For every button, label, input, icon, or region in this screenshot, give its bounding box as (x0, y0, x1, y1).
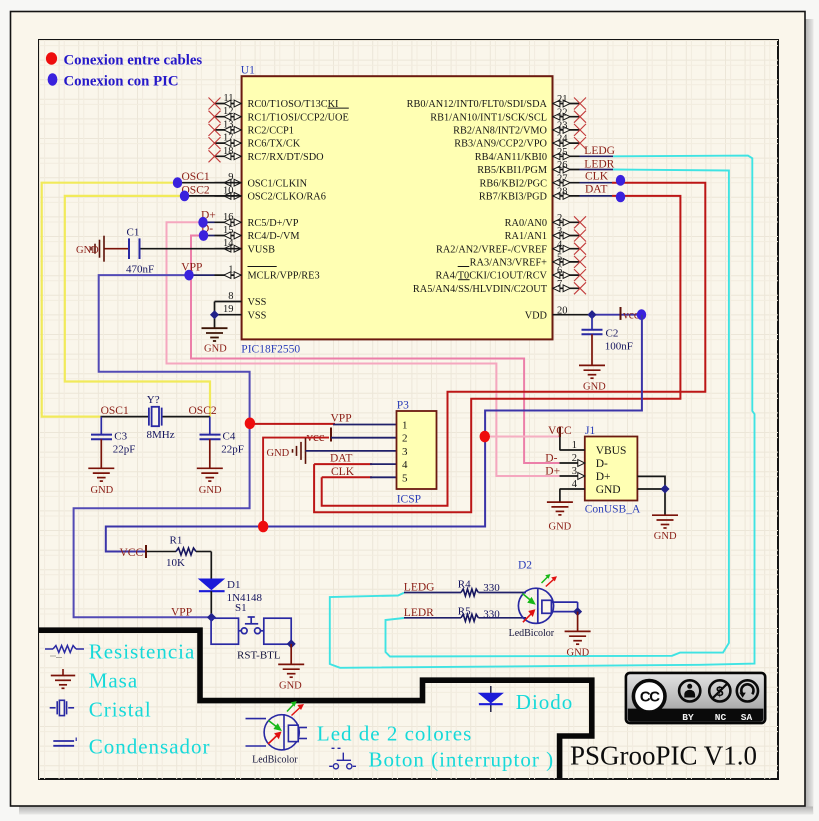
svg-text:RC5/D+/VP: RC5/D+/VP (248, 218, 299, 229)
svg-text:21: 21 (557, 94, 568, 105)
svg-text:OSC1/CLKIN: OSC1/CLKIN (248, 178, 308, 189)
svg-text:C1: C1 (127, 227, 140, 239)
ground at D2 (565, 631, 591, 644)
U1 pin 12 RC1/T1OSI/CCP2/UOE (209, 106, 349, 123)
svg-text:VSS: VSS (248, 297, 267, 308)
wire C1 to VUSB (141, 248, 242, 250)
svg-text:RA5/AN4/SS/HLVDIN/C2OUT: RA5/AN4/SS/HLVDIN/C2OUT (413, 284, 548, 295)
legend capacitor icon (Condensador) (53, 738, 76, 746)
svg-text:ConUSB_A: ConUSB_A (585, 504, 641, 516)
LED D2 green arrow (523, 594, 533, 602)
svg-text:ICSP: ICSP (397, 494, 421, 506)
svg-text:OSC2: OSC2 (189, 405, 217, 417)
svg-text:RA3/AN3/VREF+: RA3/AN3/VREF+ (470, 258, 548, 269)
svg-text:LEDR: LEDR (584, 158, 614, 170)
junction blue dot D+ (198, 217, 207, 228)
wire cyan LEDG net (330, 156, 755, 668)
svg-text:NC: NC (715, 712, 727, 723)
svg-text:10K: 10K (166, 557, 185, 569)
svg-text:VCC: VCC (120, 547, 144, 559)
svg-text:VCC: VCC (548, 425, 572, 437)
wire navy VCC net (106, 315, 642, 552)
svg-text:C2: C2 (606, 328, 619, 340)
wire crystal to OSC2 (162, 416, 210, 418)
svg-text:8: 8 (228, 291, 233, 302)
svg-text:P3: P3 (397, 400, 409, 412)
U1 pin 25 RB4/AN11/KBI0 (475, 147, 580, 163)
U1 pin 15 RC4/D-/VM (215, 225, 300, 242)
svg-text:GND: GND (279, 680, 302, 691)
svg-text:D1: D1 (227, 579, 240, 591)
svg-text:BY: BY (682, 712, 694, 723)
svg-text:330: 330 (483, 609, 500, 621)
svg-text:VDD: VDD (525, 310, 548, 321)
svg-text:28: 28 (557, 187, 568, 198)
legend button icon (329, 748, 356, 769)
svg-text:GND: GND (583, 382, 606, 393)
LED D2 light arrow green (542, 577, 548, 583)
ground at S1 (278, 664, 304, 677)
svg-text:SA: SA (741, 712, 753, 723)
U1 pin 6 RA4/T0CKI/C1OUT/RCV (435, 266, 586, 282)
svg-text:VPP: VPP (171, 606, 192, 618)
wire pink VBUS (487, 436, 560, 438)
svg-text:4: 4 (402, 459, 408, 471)
svg-text:Masa: Masa (89, 669, 139, 693)
wire gnd to P3 pin3 (306, 450, 397, 452)
U1 pin 21 RB0/AN12/INT0/FLT0/SDI/SDA (407, 94, 586, 110)
junction diamond VDD/C2 (587, 310, 596, 319)
J1 pin 3 D+ (560, 475, 585, 477)
U1 pin 11 RC0/T1OSO/T13CKI (209, 93, 340, 110)
svg-text:RC6/TX/CK: RC6/TX/CK (248, 139, 301, 150)
wire maroon vcc tap to VCC bus (263, 438, 329, 527)
svg-text:R1: R1 (170, 535, 183, 547)
svg-text:MCLR/VPP/RE3: MCLR/VPP/RE3 (248, 271, 320, 282)
U1 pin 13 RC2/CCP1 (209, 119, 294, 136)
U1 pin 23 RB2/AN8/INT2/VMO (453, 121, 586, 137)
svg-text:RC1/T1OSI/CCP2/UOE: RC1/T1OSI/CCP2/UOE (248, 112, 349, 123)
svg-text:14: 14 (223, 238, 234, 249)
legend LedBicolor icon (246, 714, 308, 751)
resistor R1 (147, 551, 176, 553)
svg-text:RC7/RX/DT/SDO: RC7/RX/DT/SDO (248, 152, 325, 163)
U1 pin 27 RB6/KBI2/PGC (479, 173, 579, 189)
svg-text:1: 1 (572, 440, 577, 451)
svg-text:RB3/AN9/CCP2/VPO: RB3/AN9/CCP2/VPO (454, 139, 547, 150)
svg-text:RA1/AN1: RA1/AN1 (505, 231, 547, 242)
U1 pin 3 RA1/AN1 (505, 226, 586, 242)
junction blue dot DAT (616, 192, 625, 203)
junction red dot VPP tap (245, 418, 255, 430)
junction blue dot VCC (637, 309, 646, 320)
connector P3 ICSP (397, 411, 437, 489)
svg-text:15: 15 (223, 225, 234, 236)
svg-text:D-: D- (596, 458, 608, 470)
svg-text:GND: GND (567, 647, 590, 658)
svg-text:RB0/AN12/INT0/FLT0/SDI/SDA: RB0/AN12/INT0/FLT0/SDI/SDA (407, 99, 548, 110)
svg-text:D2: D2 (518, 560, 532, 572)
diode D1 (198, 579, 226, 591)
ground at J1 shield (652, 515, 678, 528)
legend ground icon (Masa) (62, 669, 64, 675)
U1 pin 9 OSC1/CLKIN (215, 172, 308, 189)
junction blue dot OSC2 (180, 191, 189, 202)
U1 pin 20 VDD (525, 305, 593, 321)
svg-text:11: 11 (223, 93, 233, 104)
svg-text:2: 2 (402, 433, 408, 445)
capacitor C1 (129, 238, 140, 259)
wire DAT stub (580, 195, 613, 197)
svg-text:LedBicolor: LedBicolor (509, 628, 555, 639)
svg-text:LEDG: LEDG (584, 145, 615, 157)
wire violet VPP net from MCLR (74, 275, 250, 617)
svg-text:2: 2 (572, 453, 577, 464)
svg-text:Conexion entre cables: Conexion entre cables (64, 53, 203, 69)
svg-text:19: 19 (223, 304, 234, 315)
svg-text:27: 27 (557, 173, 568, 184)
ground at C2 (579, 365, 605, 378)
junction red dot vcc/VCC bus (258, 521, 268, 533)
svg-text:GND: GND (654, 531, 677, 542)
svg-text:Cristal: Cristal (89, 698, 152, 722)
U1 pin 22 RB1/AN10/INT1/SCK/SCL (430, 107, 586, 123)
resistor R5 (404, 617, 461, 619)
U1 pin 5 RA3/AN3/VREF+ (470, 253, 586, 269)
svg-text:12: 12 (223, 106, 234, 117)
power port VCC bar (620, 307, 622, 320)
ground at C4 (197, 468, 223, 481)
wire C4 to ground (209, 439, 211, 468)
svg-text:RB2/AN8/INT2/VMO: RB2/AN8/INT2/VMO (453, 126, 547, 137)
wire J1 shield to ground (637, 476, 665, 514)
wire C3 to ground (100, 439, 102, 468)
U1 pin 7 RA5/AN4/SS/HLVDIN/C2OUT (413, 279, 586, 295)
svg-text:RC0/T1OSO/T13CKI: RC0/T1OSO/T13CKI (248, 99, 340, 110)
svg-text:22: 22 (557, 107, 568, 118)
svg-text:OSC2/CLKO/RA6: OSC2/CLKO/RA6 (248, 192, 326, 203)
U1 pin 16 RC5/D+/VP (215, 212, 299, 229)
J1 pin 4 GND (560, 488, 585, 490)
svg-text:CLK: CLK (331, 466, 355, 478)
U1 pin 10 OSC2/CLKO/RA6 (215, 185, 326, 202)
svg-text:GND: GND (267, 448, 290, 459)
svg-text:Conexion con PIC: Conexion con PIC (64, 74, 179, 90)
U1 pin 18 RC7/RX/DT/SDO (209, 146, 325, 163)
wire VPP dot to pin (186, 274, 215, 276)
U1 pin 28 RB7/KBI3/PGD (479, 187, 580, 203)
svg-text:26: 26 (557, 160, 568, 171)
svg-text:4: 4 (572, 479, 578, 490)
svg-text:GND: GND (596, 484, 621, 496)
J1 pin 1 VBUS (560, 449, 585, 451)
svg-text:5: 5 (557, 253, 562, 264)
wire CLK stub (580, 182, 613, 184)
wire LEDR stub (580, 169, 614, 171)
capacitor C3 (100, 417, 102, 435)
wire pink D- net (191, 236, 560, 464)
svg-text:16: 16 (223, 212, 234, 223)
svg-text:5: 5 (402, 472, 408, 484)
svg-text:23: 23 (557, 121, 568, 132)
svg-text:D+: D+ (596, 471, 611, 483)
svg-text:470nF: 470nF (126, 264, 154, 276)
svg-text:Diodo: Diodo (516, 690, 574, 714)
svg-text:PSGrooPIC V1.0: PSGrooPIC V1.0 (570, 741, 757, 771)
svg-text:25: 25 (557, 147, 568, 158)
svg-text:RA0/AN0: RA0/AN0 (505, 218, 547, 229)
svg-text:100nF: 100nF (605, 341, 633, 353)
junction blue dot OSC1 (173, 177, 182, 188)
svg-text:CC: CC (640, 689, 660, 706)
crystal Y? (149, 407, 162, 426)
wire S1 to ground (290, 644, 292, 664)
svg-text:D-: D- (545, 452, 557, 464)
svg-text:Condensador: Condensador (89, 735, 211, 759)
legend crystal icon (Cristal) (50, 700, 74, 715)
svg-text:20: 20 (557, 305, 568, 316)
wire D2 to ground (577, 612, 579, 631)
svg-text:Resistencia: Resistencia (89, 640, 196, 664)
wire cyan LEDR net (386, 170, 729, 657)
svg-text:RB6/KBI2/PGC: RB6/KBI2/PGC (479, 178, 547, 189)
wire C1 to GND power bars (104, 248, 129, 250)
svg-text:7: 7 (557, 279, 562, 290)
svg-text:RST-BTL: RST-BTL (237, 649, 281, 661)
svg-text:3: 3 (557, 226, 562, 237)
svg-text:S1: S1 (235, 602, 247, 614)
svg-text:1: 1 (402, 420, 408, 432)
svg-text:GND: GND (91, 485, 114, 496)
wire C2 stub (591, 315, 593, 329)
svg-text:CLK: CLK (585, 170, 609, 182)
ground at J1 pin4 (547, 502, 573, 515)
svg-text:D+: D+ (545, 466, 560, 478)
wire OSC1 to crystal (101, 416, 150, 418)
svg-text:RB5/KBI1/PGM: RB5/KBI1/PGM (477, 165, 547, 176)
svg-text:13: 13 (223, 119, 234, 130)
CC license badge (626, 673, 765, 723)
U1 pin 4 RA2/AN2/VREF-/CVREF (436, 239, 586, 255)
resistor R4 (404, 592, 461, 594)
U1 pin 1 MCLR/VPP/RE3 (215, 265, 320, 282)
wire R1 to D1 (210, 552, 212, 579)
U1 pin 26 RB5/KBI1/PGM (477, 160, 579, 176)
svg-text:RB4/AN11/KBI0: RB4/AN11/KBI0 (475, 152, 547, 163)
legend resistor icon (45, 648, 53, 650)
svg-text:1: 1 (228, 265, 233, 276)
legend blue dot: conexion con PIC (48, 73, 58, 85)
U1 pin 24 RB3/AN9/CCP2/VPO (454, 134, 586, 150)
svg-text:9: 9 (228, 172, 233, 183)
svg-text:Y?: Y? (147, 394, 160, 406)
svg-text:OSC1: OSC1 (182, 171, 210, 183)
legend red dot: conexion entre cables (46, 52, 57, 64)
ground at VSS (202, 328, 228, 341)
svg-text:24: 24 (557, 134, 568, 145)
wire red DAT to P3 pin4 (314, 463, 372, 465)
svg-text:Led de 2 colores: Led de 2 colores (317, 722, 472, 746)
op-amp U1 PIC18F2550 chip body (242, 76, 553, 339)
wire D1 to VPP junction (210, 591, 212, 617)
svg-text:6: 6 (557, 266, 562, 277)
wire yellow OSC1 net (42, 183, 175, 417)
svg-text:GND: GND (76, 245, 99, 256)
wire D+ dot to pin (203, 221, 215, 223)
J1 pin 2 D- (560, 462, 585, 464)
junction diamond VSS (210, 310, 219, 319)
svg-text:GND: GND (204, 344, 227, 355)
svg-text:RA2/AN2/VREF-/CVREF: RA2/AN2/VREF-/CVREF (436, 244, 547, 255)
junction blue dot VPP/MCLR (184, 270, 193, 281)
svg-text:RC2/CCP1: RC2/CCP1 (248, 126, 294, 137)
wire C2 to ground (591, 334, 593, 365)
svg-text:Boton (interruptor ): Boton (interruptor ) (369, 748, 555, 772)
wire OSC1 pin stub (175, 182, 242, 184)
wire red VPP to P3 pin1 (250, 423, 335, 425)
wire red CLK to P3 pin5 (322, 476, 372, 478)
svg-text:LedBicolor: LedBicolor (252, 755, 298, 766)
svg-text:8MHz: 8MHz (147, 429, 175, 441)
ground power bars at C1 (91, 236, 104, 262)
wire D- dot to pin (204, 235, 215, 237)
svg-text:C4: C4 (223, 430, 236, 442)
svg-text:RA4/T0CKI/C1OUT/RCV: RA4/T0CKI/C1OUT/RCV (435, 271, 547, 282)
wire J1 pin4 to ground (559, 489, 561, 502)
svg-text:R5: R5 (458, 605, 471, 617)
svg-text:RB1/AN10/INT1/SCK/SCL: RB1/AN10/INT1/SCK/SCL (430, 112, 547, 123)
svg-text:2: 2 (557, 213, 562, 224)
wire VDD to VCC port (593, 314, 642, 316)
power port vcc at P3 (330, 428, 332, 442)
svg-text:OSC1: OSC1 (101, 405, 129, 417)
LED D2 light arrow red (546, 580, 554, 587)
junction blue dot CLK (616, 175, 625, 186)
junction diamond D2 cathode (573, 607, 582, 616)
svg-text:4: 4 (557, 239, 563, 250)
svg-text:3: 3 (572, 466, 577, 477)
wire yellow OSC2 net (65, 196, 210, 417)
wire vcc to P3 pin2 (331, 437, 397, 439)
capacitor C2 (582, 330, 603, 335)
wire VSS pins to ground (214, 302, 216, 328)
svg-text:RC4/D-/VM: RC4/D-/VM (248, 231, 300, 242)
thick black legend divider (39, 630, 592, 778)
wire LEDG stub (580, 155, 614, 157)
U1 pin 8 VSS (215, 291, 267, 308)
legend diode icon (Diodo) (490, 686, 492, 712)
svg-text:10: 10 (223, 185, 234, 196)
svg-text:VBUS: VBUS (596, 445, 627, 457)
U1 pin 2 RA0/AN0 (505, 213, 586, 229)
capacitor C4 (209, 417, 211, 435)
svg-text:PIC18F2550: PIC18F2550 (241, 344, 300, 356)
wire red DAT net (314, 196, 680, 512)
LED D2 red arrow (523, 614, 532, 623)
U1 pin 14 VUSB (215, 238, 276, 255)
svg-text:DAT: DAT (585, 184, 607, 196)
svg-text:RB7/KBI3/PGD: RB7/KBI3/PGD (479, 192, 548, 203)
power port VCC at J1 (559, 427, 561, 438)
svg-text:VUSB: VUSB (248, 244, 276, 255)
svg-text:22pF: 22pF (113, 443, 136, 455)
svg-text:vcc: vcc (623, 310, 639, 322)
junction diamond J1 shield (660, 484, 669, 493)
svg-text:VPP: VPP (331, 413, 352, 425)
svg-text:DAT: DAT (330, 453, 352, 465)
svg-text:22pF: 22pF (221, 443, 244, 455)
power port VCC at R1 (145, 545, 147, 558)
svg-text:17: 17 (223, 133, 234, 144)
ground at C3 (88, 468, 114, 481)
svg-text:330: 330 (483, 582, 500, 594)
svg-text:J1: J1 (585, 425, 595, 437)
svg-text:GND: GND (199, 485, 222, 496)
svg-text:R4: R4 (458, 578, 471, 590)
wire red CLK net (322, 183, 706, 506)
junction diamond S1 to gnd (287, 639, 296, 648)
U1 pin 19 VSS (215, 304, 267, 321)
svg-text:GND: GND (549, 522, 572, 533)
wire pink D+ net (167, 222, 560, 476)
svg-text:VSS: VSS (248, 310, 267, 321)
junction diamond VPP/D1/S1 (207, 613, 216, 622)
connector J1 ConUSB_A (585, 437, 638, 501)
svg-text:C3: C3 (114, 430, 127, 442)
svg-text:U1: U1 (241, 65, 255, 77)
svg-text:18: 18 (223, 146, 234, 157)
ground power bars at P3 pin3 (293, 438, 306, 464)
junction blue dot D- (199, 230, 208, 241)
svg-text:3: 3 (402, 446, 408, 458)
U1 pin 17 RC6/TX/CK (209, 133, 301, 150)
wire OSC2 pin stub (182, 195, 242, 197)
